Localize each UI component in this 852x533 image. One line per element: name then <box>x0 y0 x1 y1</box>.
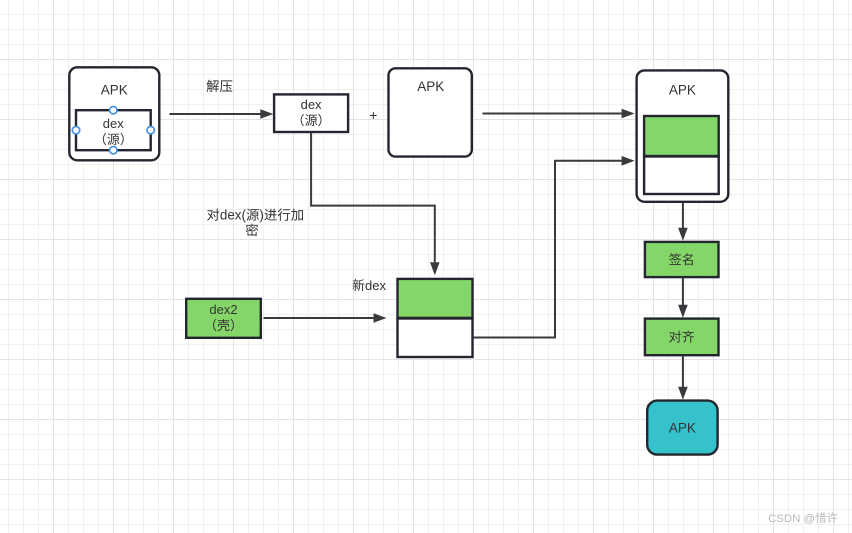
dex(source) inner box <box>76 110 151 150</box>
selection handle right <box>147 127 154 134</box>
arrow align to final APK <box>682 356 684 387</box>
svg-text:APK: APK <box>669 83 696 98</box>
wire new dex to repacked APK <box>474 161 622 338</box>
svg-text:dex(: dex( <box>220 208 247 223</box>
svg-text:dex: dex <box>365 278 386 293</box>
align box <box>645 319 719 356</box>
svg-text:dex2: dex2 <box>209 302 237 317</box>
sign label <box>669 253 681 265</box>
APK other-files box <box>389 68 472 156</box>
selection handle left <box>72 127 79 134</box>
label jieya (unzip) <box>207 80 219 92</box>
new dex green cell <box>398 279 473 318</box>
svg-text:): ) <box>259 208 263 223</box>
align label <box>669 331 681 343</box>
encrypt path wire <box>311 133 435 262</box>
svg-text:+: + <box>369 107 377 123</box>
dex box2 label line2 <box>301 114 304 126</box>
dex2 shell box <box>186 299 261 338</box>
sign box <box>645 242 719 277</box>
repacked white cell <box>644 157 719 195</box>
dex source extracted box <box>274 94 348 132</box>
svg-text:dex: dex <box>103 116 124 131</box>
selection handle top <box>110 107 117 114</box>
label new dex <box>353 279 365 291</box>
dex inner label line2 <box>103 133 106 145</box>
svg-text:CSDN @: CSDN @ <box>768 513 815 525</box>
selection handle bottom <box>110 147 117 154</box>
label encrypt dex line2 <box>246 224 258 236</box>
arrow dex2 to new dex <box>264 317 374 319</box>
unzip arrow APK to dex <box>170 113 261 115</box>
svg-text:APK: APK <box>669 420 696 435</box>
repacked APK box <box>637 70 729 201</box>
APK source package box <box>69 67 159 160</box>
arrow APK to repacked APK <box>483 113 622 115</box>
svg-text:APK: APK <box>417 79 444 94</box>
new dex white cell <box>398 319 473 358</box>
arrow repacked APK to sign <box>682 203 684 229</box>
svg-text:dex: dex <box>301 97 322 112</box>
label encrypt dex line1 <box>207 208 219 220</box>
svg-text:APK: APK <box>101 83 128 98</box>
repacked green dex cell <box>644 116 719 156</box>
final APK box <box>647 401 717 455</box>
dex2 label line2 <box>213 319 216 331</box>
arrow sign to align <box>682 278 684 306</box>
